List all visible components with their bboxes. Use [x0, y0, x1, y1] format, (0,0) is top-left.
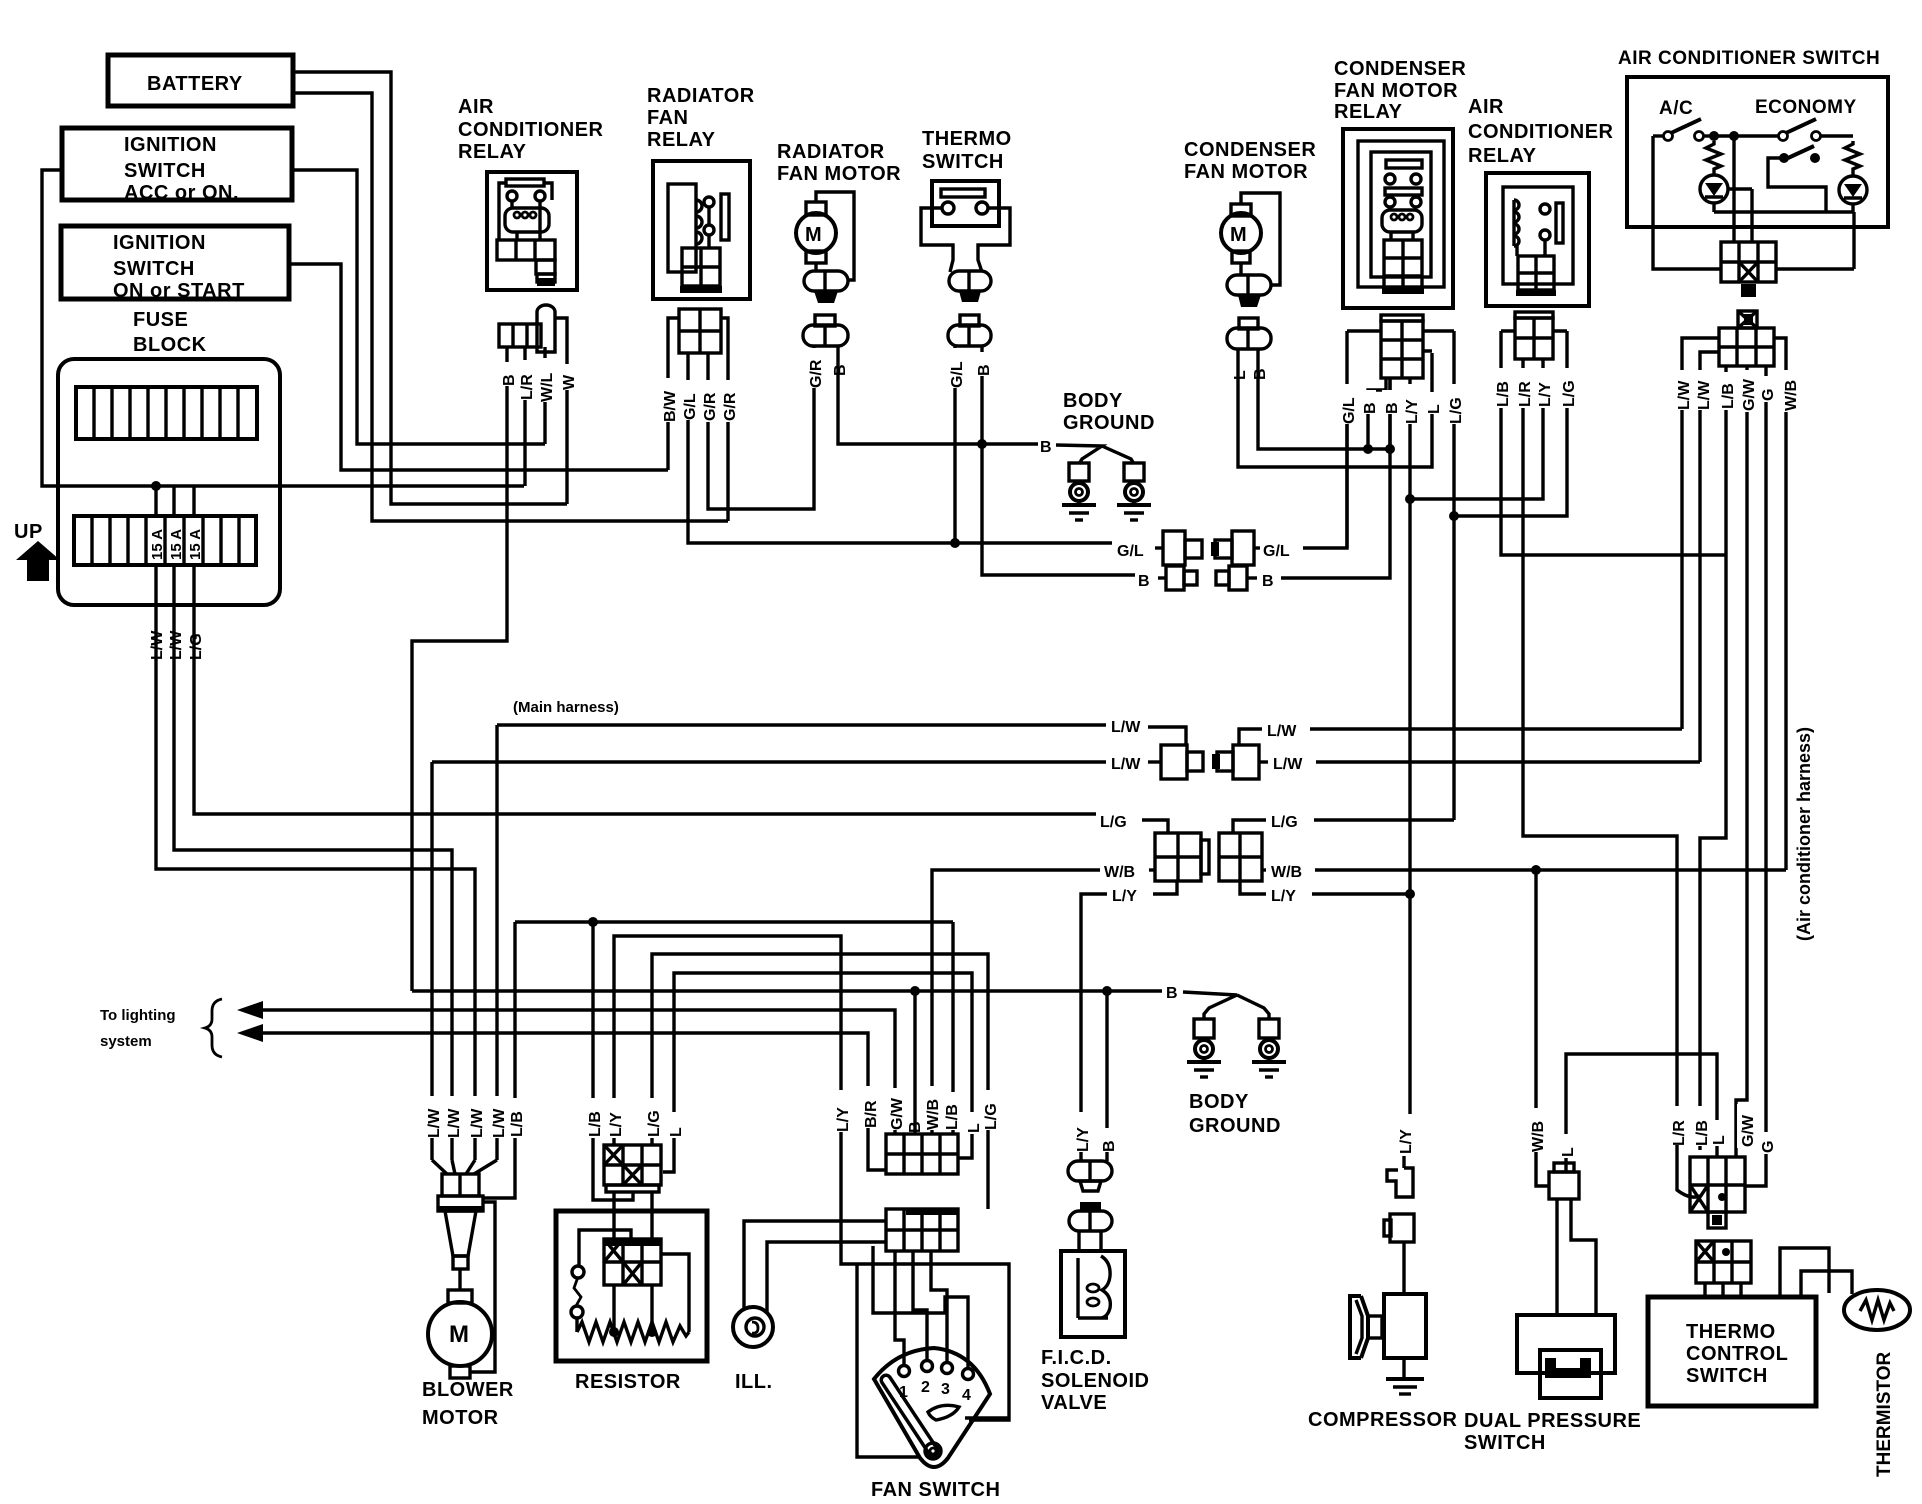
svg-text:L: L	[1426, 404, 1443, 414]
wire A/C left side loop	[1653, 136, 1854, 269]
label B fan	[905, 1112, 924, 1134]
wire ignition ACC left to fuse block	[42, 170, 524, 486]
svg-text:B/R: B/R	[863, 1100, 880, 1128]
CONDENSER FAN MOTOR caption	[1184, 139, 1316, 183]
svg-text:system: system	[100, 1033, 152, 1050]
svg-text:UP: UP	[14, 521, 43, 543]
wire B condenser motor to relay	[1258, 349, 1392, 449]
wire L dual pressure to thermo control	[1566, 1054, 1717, 1171]
wire L/R into connector	[1677, 1145, 1700, 1197]
arrow to lighting 1	[237, 1001, 263, 1019]
svg-text:SWITCH: SWITCH	[1686, 1365, 1768, 1387]
svg-text:AIR: AIR	[458, 96, 494, 118]
svg-text:W/B: W/B	[925, 1099, 942, 1130]
fuse 15A label 3	[187, 529, 204, 560]
motor M radiator fan	[796, 192, 854, 280]
svg-text:W/L: W/L	[539, 372, 556, 402]
connector condenser fan motor	[1227, 275, 1271, 307]
label G/W thermo control	[1737, 1104, 1757, 1148]
ground lug 1	[1069, 463, 1089, 505]
connector dual pressure switch	[1549, 1163, 1579, 1199]
connector L/W inline left	[1161, 745, 1203, 779]
svg-text:B: B	[1040, 439, 1052, 456]
svg-text:BODY: BODY	[1063, 390, 1123, 412]
svg-text:G/R: G/R	[702, 392, 719, 421]
svg-text:G/L: G/L	[949, 361, 966, 388]
svg-text:L/W: L/W	[426, 1108, 443, 1138]
svg-text:L/R: L/R	[1517, 381, 1534, 407]
wire battery to W (AC relay pin W)	[294, 72, 567, 504]
svg-text:FAN SWITCH: FAN SWITCH	[871, 1479, 1000, 1501]
connector harness 4p right	[1219, 833, 1262, 881]
wire W/B switch	[1774, 338, 1786, 870]
svg-text:L/W: L/W	[491, 1108, 508, 1138]
ground lug 4	[1259, 1019, 1279, 1062]
wire B condenser relay pin2 (continues via inline B)	[1388, 378, 1391, 449]
arrow to lighting 2	[237, 1024, 263, 1042]
svg-text:L/B: L/B	[1495, 381, 1512, 407]
wire L/W switch a	[1682, 338, 1719, 729]
svg-text:B/W: B/W	[662, 390, 679, 422]
wire resistor L/G link to fan	[652, 954, 988, 1209]
label B thermo	[974, 352, 993, 376]
svg-text:RELAY: RELAY	[647, 129, 716, 151]
wire B FICD	[1105, 991, 1108, 1161]
wire battery to G/R (radiator fan relay pin)	[294, 93, 728, 521]
label L/W blower 4	[489, 1096, 508, 1138]
svg-text:L/G: L/G	[983, 1103, 1000, 1130]
compressor body	[1350, 1294, 1426, 1358]
svg-text:L: L	[1711, 1135, 1728, 1145]
svg-text:L/Y: L/Y	[835, 1107, 852, 1132]
label B	[499, 362, 518, 386]
svg-text:1: 1	[899, 1384, 908, 1401]
svg-text:SOLENOID: SOLENOID	[1041, 1370, 1149, 1392]
label L/Y AC relay2	[1535, 368, 1554, 408]
label W/B dual pressure	[1528, 1108, 1547, 1152]
svg-text:SWITCH: SWITCH	[922, 151, 1004, 173]
svg-text:A/C: A/C	[1659, 98, 1693, 119]
wire G/L radiator relay to connector link	[688, 353, 1112, 543]
blower motor funnel	[445, 1211, 476, 1269]
node L/G branch	[1449, 511, 1459, 521]
ignition switch ON or START box	[61, 226, 289, 302]
wire blower motor return	[470, 1202, 495, 1372]
wire L/G condenser relay down	[1452, 331, 1455, 820]
wire L/W row1 to switch	[1310, 727, 1682, 730]
resistor A/C side	[1706, 141, 1721, 174]
relay box AC relay 2	[1486, 173, 1589, 306]
fuse block upper fuse row	[76, 387, 257, 439]
svg-text:F.I.C.D.: F.I.C.D.	[1041, 1347, 1112, 1369]
wire fuse L/G down to main harness	[194, 565, 1096, 814]
AIR CONDITIONER RELAY 2 caption	[1468, 96, 1614, 167]
wire B bus	[412, 989, 1162, 992]
svg-text:RADIATOR: RADIATOR	[647, 85, 755, 107]
svg-text:MOTOR: MOTOR	[422, 1407, 499, 1429]
wire L/W row2 left	[432, 760, 1106, 763]
svg-text:B: B	[1101, 1140, 1118, 1152]
wire G/L condenser relay	[1345, 331, 1348, 548]
resistor ECONOMY side	[1845, 141, 1860, 176]
thermo control switch box	[1648, 1297, 1816, 1406]
svg-text:L/Y: L/Y	[1075, 1127, 1092, 1152]
svg-text:G/L: G/L	[1263, 543, 1290, 560]
label L/B thermo control	[1692, 1106, 1711, 1146]
wire L/Y row5 right	[1240, 881, 1266, 894]
wire L/W switch b	[1700, 352, 1719, 762]
svg-text:G: G	[1760, 1141, 1777, 1153]
ignition switch ACC or ON box	[62, 128, 292, 204]
svg-text:L/W: L/W	[1696, 380, 1713, 410]
svg-text:L/G: L/G	[646, 1110, 663, 1137]
label L/Y resistor	[606, 1098, 625, 1138]
svg-text:AIR: AIR	[1468, 96, 1504, 118]
RADIATOR FAN MOTOR caption	[777, 141, 901, 185]
resistor taps	[609, 1254, 689, 1337]
svg-text:M: M	[1230, 224, 1247, 246]
svg-text:RELAY: RELAY	[458, 141, 527, 163]
relay box condenser fan motor relay	[1343, 129, 1453, 308]
connector resistor component	[604, 1191, 661, 1285]
compressor ground	[1386, 1358, 1424, 1394]
svg-text:L/G: L/G	[1271, 814, 1298, 831]
wire G switch	[1745, 366, 1766, 1186]
node fuse junction	[151, 481, 161, 491]
svg-text:L/B: L/B	[1720, 383, 1737, 409]
connector AC relay 1	[499, 305, 567, 352]
CONDENSER FAN MOTOR RELAY caption	[1334, 58, 1466, 123]
label W/B fan	[923, 1086, 942, 1130]
svg-text:CONTROL: CONTROL	[1686, 1343, 1788, 1365]
connector resistor harness	[604, 1145, 661, 1192]
fan switch wedge	[874, 1348, 990, 1467]
relay internals radiator fan relay	[668, 184, 729, 293]
svg-text:BATTERY: BATTERY	[147, 73, 243, 95]
BLOWER MOTOR caption	[422, 1379, 514, 1429]
svg-text:ACC or ON.: ACC or ON.	[124, 182, 239, 204]
wire L/W row1 right	[1239, 729, 1262, 745]
label THERMISTOR	[1874, 1351, 1895, 1477]
svg-text:L/W: L/W	[149, 630, 166, 660]
node B junction thermo	[977, 439, 987, 449]
connector condenser fan motor 2	[1227, 318, 1271, 349]
label L/G resistor	[644, 1098, 663, 1138]
label B condenser motor	[1250, 356, 1269, 380]
connector thermo control component	[1696, 1241, 1751, 1297]
switch ECONOMY second	[1768, 146, 1826, 212]
wire G/W switch	[1736, 366, 1747, 1157]
svg-text:VALVE: VALVE	[1041, 1392, 1107, 1414]
wire L/Y row5 to condenser line	[1312, 892, 1410, 895]
svg-text:M: M	[805, 224, 822, 246]
label L resistor	[666, 1112, 685, 1138]
wire L/W row2 right	[1259, 760, 1268, 763]
wire G/R radiator relay pin4	[726, 330, 729, 521]
wire notch to loop	[965, 1416, 1009, 1419]
connector thermo switch 2	[948, 315, 991, 346]
label L dual pressure	[1558, 1134, 1577, 1158]
wire L/R AC relay 2	[1523, 359, 1677, 1107]
connector FICD 2	[1069, 1202, 1112, 1251]
svg-text:SWITCH: SWITCH	[124, 160, 206, 182]
fuse block lower fuse row	[74, 516, 256, 565]
wire into connector row2	[1148, 760, 1161, 763]
THERMO SWITCH caption	[922, 128, 1012, 173]
wire fuse L/W 1 down	[156, 565, 475, 1160]
ground symbol 4	[1252, 1062, 1286, 1077]
relay internals AC relay 1	[497, 179, 555, 286]
wire L/Y condenser relay down	[1408, 378, 1411, 1115]
label L condenser motor	[1230, 356, 1249, 380]
svg-text:15 A: 15 A	[187, 529, 204, 560]
svg-text:L/Y: L/Y	[1537, 382, 1554, 407]
wire G/R radiator relay to fan motor	[708, 345, 814, 509]
label Air conditioner harness	[1794, 727, 1814, 941]
wire W AC relay1	[565, 352, 568, 504]
svg-text:ON or START: ON or START	[113, 280, 245, 302]
svg-text:CONDITIONER: CONDITIONER	[1468, 121, 1614, 143]
node B pin1	[1363, 444, 1373, 454]
svg-text:(Main harness): (Main harness)	[513, 699, 619, 716]
label L/B resistor	[585, 1098, 604, 1138]
connector harness 4p left	[1155, 833, 1209, 881]
wire B thermo switch	[982, 346, 1135, 575]
svg-text:RADIATOR: RADIATOR	[777, 141, 885, 163]
connector G/L inline left	[1155, 531, 1202, 565]
connector blower motor	[438, 1174, 483, 1211]
BODY GROUND 1 caption	[1063, 390, 1155, 434]
connector thermo switch	[949, 271, 991, 302]
label To lighting system	[100, 999, 222, 1057]
svg-text:FAN MOTOR: FAN MOTOR	[1334, 80, 1458, 102]
svg-text:L: L	[966, 1123, 983, 1133]
wire B bracket 2	[1183, 992, 1269, 1019]
label L/B switch	[1718, 372, 1737, 410]
node G/L junction	[950, 538, 960, 548]
relay internals condenser fan motor relay	[1371, 152, 1431, 294]
svg-text:COMPRESSOR: COMPRESSOR	[1308, 1409, 1458, 1431]
svg-text:GROUND: GROUND	[1189, 1115, 1281, 1137]
wire L/Y into connector	[1153, 881, 1177, 894]
resistor thermal fuse branch	[571, 1230, 631, 1332]
svg-text:B: B	[1252, 368, 1269, 380]
connector B inline right	[1216, 566, 1257, 590]
wire W/B row4 right	[1262, 868, 1266, 871]
svg-text:IGNITION: IGNITION	[113, 232, 206, 254]
svg-text:ECONOMY: ECONOMY	[1755, 97, 1857, 118]
svg-text:G/R: G/R	[808, 359, 825, 388]
connector radiator fan motor 2	[803, 315, 848, 346]
svg-text:G/L: G/L	[1117, 543, 1144, 560]
wire L/B bus	[515, 920, 953, 923]
fuse block label	[133, 309, 207, 356]
label G switch	[1758, 376, 1777, 402]
connector radiator fan relay	[668, 309, 728, 353]
wire fuse L/W 2 down	[174, 565, 452, 1160]
label L/R AC relay2	[1515, 368, 1534, 408]
wire B fan	[913, 991, 916, 1134]
svg-text:THERMO: THERMO	[922, 128, 1012, 150]
label W/B switch	[1781, 370, 1800, 412]
label L/W blower 2	[444, 1096, 463, 1138]
wire ignition ON/START to B/W	[290, 264, 668, 470]
connector compressor clip	[1387, 1156, 1413, 1197]
FICD valve body	[1061, 1251, 1125, 1337]
svg-text:2: 2	[921, 1379, 930, 1396]
wire B condenser relay pin1	[1368, 378, 1386, 449]
blower connector fan-in wires	[432, 1160, 497, 1174]
svg-text:CONDENSER: CONDENSER	[1334, 58, 1466, 80]
wire resistor L/Y link to fan	[614, 936, 857, 1264]
terminal numbers	[899, 1379, 971, 1404]
svg-text:To lighting: To lighting	[100, 1007, 176, 1024]
connector fan switch harness	[886, 1134, 958, 1174]
wire L/B AC relay 2	[1501, 331, 1726, 555]
svg-text:L/G: L/G	[188, 633, 205, 660]
svg-text:G/W: G/W	[1741, 378, 1758, 411]
wire ignition ACC to W/L	[293, 170, 545, 444]
svg-text:G: G	[1760, 389, 1777, 401]
svg-text:W/B: W/B	[1530, 1121, 1547, 1152]
wire L/B switch	[1700, 366, 1726, 1150]
node A/C out 1	[1709, 131, 1719, 141]
fuse 15A label 1	[149, 529, 166, 560]
svg-text:W/B: W/B	[1271, 864, 1302, 881]
svg-text:L/W: L/W	[168, 630, 185, 660]
AIR CONDITIONER RELAY caption	[458, 96, 604, 163]
FICD caption	[1041, 1347, 1149, 1414]
svg-text:FAN: FAN	[647, 107, 689, 129]
label B condenser relay 2	[1382, 390, 1401, 414]
ground lug 2	[1124, 463, 1144, 505]
svg-text:L/G: L/G	[1561, 380, 1578, 407]
AC switch box	[1627, 77, 1888, 227]
svg-text:G/W: G/W	[1740, 1114, 1757, 1147]
svg-text:B: B	[1384, 402, 1401, 414]
label L/R thermo control	[1669, 1106, 1688, 1146]
connector AC relay 2	[1501, 312, 1567, 359]
svg-text:BLOCK: BLOCK	[133, 334, 207, 356]
label W/L	[537, 358, 556, 402]
svg-text:L/W: L/W	[1111, 719, 1141, 736]
connector radiator fan motor	[804, 271, 848, 303]
svg-text:W/B: W/B	[1783, 380, 1800, 411]
connector AC switch lower	[1719, 311, 1774, 366]
svg-text:B: B	[832, 364, 849, 376]
wire L/Y FICD	[1079, 1113, 1082, 1161]
svg-text:SWITCH: SWITCH	[1464, 1432, 1546, 1454]
label L/W blower 3	[467, 1096, 486, 1138]
label G/R	[700, 380, 719, 422]
svg-text:15 A: 15 A	[149, 529, 166, 560]
svg-text:SWITCH: SWITCH	[113, 258, 195, 280]
ILL lamp	[733, 1307, 773, 1347]
dual pressure switch body	[1517, 1315, 1615, 1398]
svg-text:L/W: L/W	[1273, 756, 1303, 773]
label L fan	[964, 1112, 983, 1134]
label L/W blower 1	[424, 1096, 443, 1138]
svg-text:AIR CONDITIONER SWITCH: AIR CONDITIONER SWITCH	[1618, 48, 1880, 69]
label L/W switch a	[1674, 370, 1693, 410]
svg-text:L/W: L/W	[1676, 380, 1693, 410]
fan switch lever	[886, 1380, 941, 1459]
wire L/G into connector	[1142, 820, 1168, 833]
svg-text:FAN MOTOR: FAN MOTOR	[777, 163, 901, 185]
wire L/W row1 left	[495, 725, 498, 1160]
node B ficd	[1102, 986, 1112, 996]
label W	[559, 364, 578, 390]
svg-text:3: 3	[941, 1381, 950, 1398]
label B motor	[830, 352, 849, 376]
svg-text:L/B: L/B	[587, 1111, 604, 1137]
battery box	[108, 55, 293, 106]
svg-text:L/Y: L/Y	[1404, 399, 1421, 424]
wire W/B row4 left	[932, 870, 1100, 1134]
svg-text:L/Y: L/Y	[608, 1112, 625, 1137]
connector B inline left	[1158, 566, 1197, 590]
label G/L thermo	[947, 348, 966, 388]
svg-text:G/L: G/L	[1341, 397, 1358, 424]
wire into connector	[1148, 727, 1186, 745]
connector thermo control harness	[1690, 1157, 1745, 1228]
wire node link	[1714, 134, 1779, 137]
label L/G fan	[981, 1090, 1000, 1130]
svg-text:L/W: L/W	[446, 1108, 463, 1138]
wire B bracket to grounds	[1056, 445, 1134, 464]
connector L/W inline right	[1212, 745, 1259, 779]
wire L/Y AC relay 2 branch	[1410, 359, 1543, 499]
svg-text:RELAY: RELAY	[1468, 145, 1537, 167]
svg-text:B: B	[1262, 573, 1274, 590]
DUAL PRESSURE SWITCH caption	[1464, 1410, 1641, 1454]
connector condenser fan motor relay	[1347, 315, 1454, 378]
svg-text:L/W: L/W	[1267, 723, 1297, 740]
label L thermo control	[1709, 1120, 1728, 1146]
fan switch inner wiring	[873, 1246, 968, 1367]
connector G/L inline right	[1211, 531, 1260, 565]
wire LED bottoms link	[1714, 136, 1854, 269]
svg-text:B: B	[501, 374, 518, 386]
label L/W switch b	[1694, 370, 1713, 410]
wire lighting 1 to fan G/W	[258, 1010, 895, 1134]
svg-text:IGNITION: IGNITION	[124, 134, 217, 156]
svg-text:CONDENSER: CONDENSER	[1184, 139, 1316, 161]
label L/G condenser relay	[1446, 384, 1465, 424]
svg-text:ILL.: ILL.	[735, 1371, 773, 1393]
label G/L condenser relay	[1339, 384, 1358, 424]
resistor element zigzag	[577, 1322, 689, 1342]
label L condenser relay	[1424, 392, 1443, 414]
switch ECONOMY	[1779, 119, 1854, 141]
LED A/C	[1700, 175, 1728, 203]
label G/W switch	[1739, 370, 1758, 412]
wire W/B row4 to switch	[1315, 868, 1786, 871]
thermo switch body	[921, 181, 1010, 272]
fan switch terminal 3	[942, 1363, 953, 1374]
svg-text:B: B	[1138, 573, 1150, 590]
ground symbol 3	[1187, 1062, 1221, 1077]
svg-text:L: L	[1560, 1147, 1577, 1157]
relay box radiator fan relay	[653, 161, 750, 299]
svg-text:RESISTOR: RESISTOR	[575, 1371, 681, 1393]
svg-text:FAN MOTOR: FAN MOTOR	[1184, 161, 1308, 183]
label L/R	[517, 360, 536, 400]
wire L/Y row5 left	[1081, 894, 1107, 1113]
fan switch loop box	[857, 1264, 1009, 1457]
label B/W	[660, 378, 679, 422]
label L/W fuse2	[168, 630, 185, 660]
